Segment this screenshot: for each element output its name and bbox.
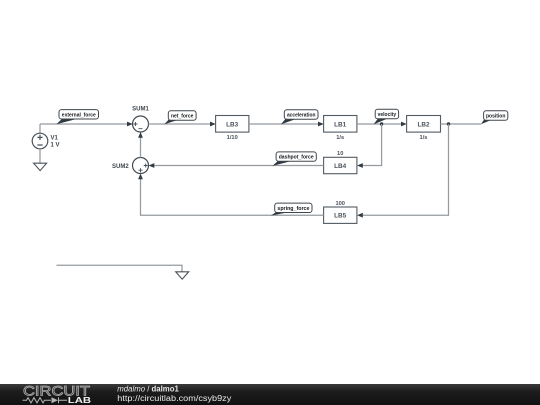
wire acceleration (LB3 to LB1) — [249, 123, 322, 125]
ground symbol (stub) — [176, 272, 189, 279]
svg-text:http://circuitlab.com/csyb9zy: http://circuitlab.com/csyb9zy — [117, 394, 231, 403]
wire V1 top stem — [39, 124, 41, 133]
wire external_force (V1 to SUM1) — [40, 123, 131, 125]
svg-text:SUM1: SUM1 — [132, 107, 149, 113]
svg-text:100: 100 — [335, 201, 345, 207]
svg-text:acceleration: acceleration — [287, 113, 316, 119]
arrow into LB5 right — [357, 213, 363, 218]
integrator block LB2 — [407, 116, 441, 142]
voltage source V1 — [32, 133, 48, 149]
svg-text:SUM2: SUM2 — [112, 164, 129, 170]
summing junction SUM1 — [132, 107, 149, 132]
wire spring_force (LB5 to SUM2 bottom) — [141, 176, 324, 216]
node junction velocity branch — [380, 122, 383, 125]
svg-text:10: 10 — [337, 151, 343, 157]
svg-text:1/s: 1/s — [420, 135, 428, 141]
arrow into LB3 left — [210, 122, 216, 127]
svg-text:LB1: LB1 — [334, 121, 347, 128]
arrow into SUM2 right — [149, 163, 155, 168]
arrow into SUM2 bottom — [138, 174, 143, 180]
arrow into LB2 left — [401, 122, 407, 127]
ground under V1 — [34, 163, 47, 170]
CircuitLab logo resistor-diode glyph — [23, 397, 68, 403]
svg-text:mdalmo / dalmo1: mdalmo / dalmo1 — [117, 385, 179, 394]
svg-text:external_force: external_force — [62, 112, 97, 118]
svg-text:LB3: LB3 — [226, 121, 239, 128]
wire stub with ground (bottom left) — [57, 265, 183, 271]
label flag external_force — [56, 110, 98, 125]
wire position (LB2 output) — [441, 123, 482, 125]
integrator block LB1 — [324, 116, 357, 142]
arrow into LB1 left — [318, 122, 324, 127]
gain block LB4 — [324, 151, 357, 174]
label flag acceleration — [281, 110, 318, 125]
V1 value labels — [51, 136, 60, 149]
label flag position — [481, 111, 508, 124]
svg-text:LB5: LB5 — [334, 213, 347, 220]
svg-text:LB4: LB4 — [334, 163, 347, 170]
label flag spring_force — [271, 203, 312, 216]
label flag net_force — [164, 111, 196, 124]
arrow into SUM1 bottom — [138, 132, 143, 138]
summing junction SUM2 — [112, 158, 148, 174]
svg-text:1 V: 1 V — [51, 143, 60, 149]
gain block LB5 — [324, 201, 357, 224]
label flag velocity — [374, 109, 399, 124]
svg-text:LAB: LAB — [68, 395, 91, 405]
svg-text:dashpot_force: dashpot_force — [279, 155, 315, 161]
footer bar — [0, 384, 540, 405]
arrow into LB4 right — [357, 163, 363, 168]
wire velocity branch down to LB4 — [359, 124, 382, 166]
wire SUM2 to SUM1 — [140, 134, 142, 158]
svg-text:velocity: velocity — [378, 112, 397, 118]
svg-text:1/10: 1/10 — [227, 135, 238, 141]
wire V1 bottom stem — [39, 149, 41, 163]
svg-text:position: position — [486, 114, 506, 120]
node junction position branch — [447, 122, 450, 125]
wire velocity (LB1 to LB2) — [357, 123, 405, 125]
arrow into SUM1 left — [127, 122, 133, 127]
svg-text:1/s: 1/s — [336, 135, 344, 141]
svg-text:spring_force: spring_force — [277, 206, 310, 212]
label flag dashpot_force — [273, 152, 317, 166]
wire position branch down to LB5 — [359, 124, 449, 215]
gain block LB3 — [216, 116, 249, 142]
wire dashpot_force (LB4 to SUM2) — [151, 165, 324, 167]
svg-text:V1: V1 — [51, 136, 59, 142]
svg-text:net_force: net_force — [171, 114, 194, 120]
svg-text:LB2: LB2 — [417, 121, 430, 128]
wire net_force (SUM1 to LB3) — [149, 123, 214, 125]
